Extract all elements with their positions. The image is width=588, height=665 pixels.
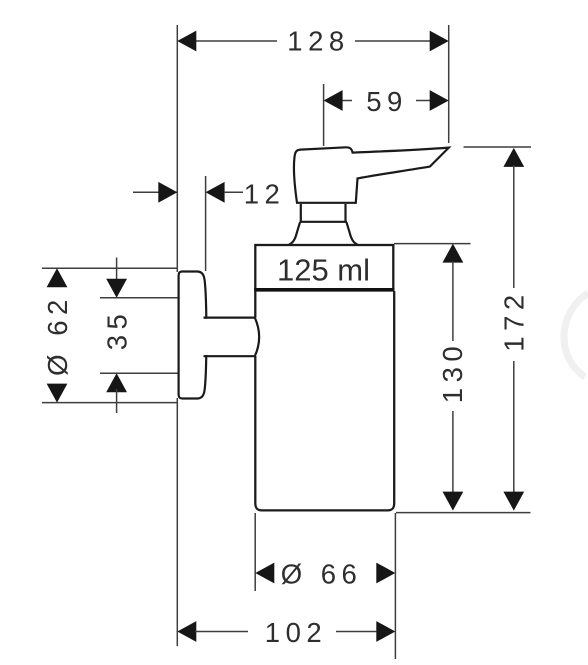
- extension line: hole top for dim 35: [100, 297, 178, 299]
- extension line: spout tip right for dims 128/59: [448, 25, 450, 143]
- dimension 59 line: [341, 100, 431, 102]
- svg-text:102: 102: [265, 617, 327, 648]
- dimension 130 line segments: [452, 261, 454, 495]
- extension line: plate bottom (left side) for dim O62: [42, 402, 178, 404]
- extension line: pump centerline-left for dim 59: [323, 84, 325, 146]
- dimension 128 left arrow: [177, 31, 196, 52]
- svg-text:128: 128: [287, 26, 349, 57]
- dimension 12 right arrow (points left at plate face): [206, 182, 225, 203]
- dimension 35 upper arrow (points down): [106, 279, 127, 298]
- dimension O62 bottom arrow: [47, 384, 68, 403]
- svg-text:Ø 66: Ø 66: [281, 558, 363, 589]
- dimension 102 right arrow: [376, 621, 395, 642]
- dimension 102 tail line right: [336, 631, 378, 633]
- svg-text:125 ml: 125 ml: [277, 253, 370, 288]
- dimension 35 upper line: [116, 258, 118, 283]
- svg-text:35: 35: [102, 309, 133, 351]
- dimension 130 lower arrow (points down): [443, 492, 464, 511]
- svg-text:130: 130: [437, 341, 468, 403]
- svg-text:172: 172: [499, 289, 530, 351]
- dimension O66 left arrow: [255, 563, 274, 584]
- dimension 102 tail line left: [195, 631, 248, 633]
- extension line: bottle ring top for dim 130: [394, 243, 471, 245]
- mounting arm top edge: [204, 317, 255, 319]
- dimension 102 left arrow: [177, 621, 196, 642]
- bottle ring (125 ml collar): [255, 245, 393, 290]
- dimension 35 lower arrow (points up): [106, 373, 127, 392]
- dimension 59 right arrow: [430, 90, 449, 111]
- watermark arc fragment at right edge: [564, 293, 588, 377]
- extension line: wall plane (left, x=177) upper: [176, 25, 178, 272]
- dimension 12 tail line right: [224, 191, 243, 193]
- extension line: hole bottom for dim 35: [100, 372, 178, 374]
- svg-text:12: 12: [244, 179, 286, 210]
- dimension O66 right arrow: [376, 563, 395, 584]
- dimension O62 top arrow: [47, 268, 68, 287]
- svg-text:Ø 62: Ø 62: [42, 294, 73, 376]
- shoulder dome right curve: [347, 222, 358, 245]
- bottle body: [255, 291, 394, 510]
- neck bottom line: [300, 221, 348, 223]
- dimension 35 lower line: [116, 389, 118, 413]
- dimension 59 left arrow: [324, 90, 343, 111]
- mounting arm body (occludes plate edge): [203, 319, 255, 355]
- extension line: spout top level for dim 172: [464, 146, 532, 148]
- extension line: bottle bottom baseline for dims 130/172: [396, 512, 531, 514]
- dimension 128 line: [195, 40, 431, 42]
- dimension 172 line segments: [513, 165, 515, 495]
- extension line: bottle right lower for dims O66/102: [394, 513, 396, 659]
- pump head and spout: [294, 147, 449, 203]
- neck left edge: [300, 204, 302, 222]
- dimension 12 left arrow (points right at wall): [158, 182, 177, 203]
- extension line: plate top (left side) for dim O62: [42, 267, 178, 269]
- dimension 12 tail line left: [133, 191, 177, 193]
- shoulder dome left curve: [289, 222, 300, 245]
- mounting arm bottom edge: [204, 355, 255, 357]
- dimension 172 lower arrow (points down): [503, 492, 524, 511]
- extension line: plate right edge for dim 12: [205, 176, 207, 271]
- neck right edge: [344, 204, 346, 222]
- extension line: bottle left lower for dim O66: [254, 513, 256, 591]
- extension line: wall plane (left, x=177) lower: [176, 398, 178, 646]
- dimension 130 upper arrow (points up): [443, 244, 464, 263]
- svg-text:59: 59: [366, 86, 408, 117]
- arm end cap arc on bottle: [255, 318, 259, 357]
- bottle ring thick bottom line: [254, 288, 394, 292]
- dimension 128 right arrow: [430, 31, 449, 52]
- dimension 172 upper arrow (points up): [503, 148, 524, 167]
- wall plate (side view disc): [179, 272, 207, 399]
